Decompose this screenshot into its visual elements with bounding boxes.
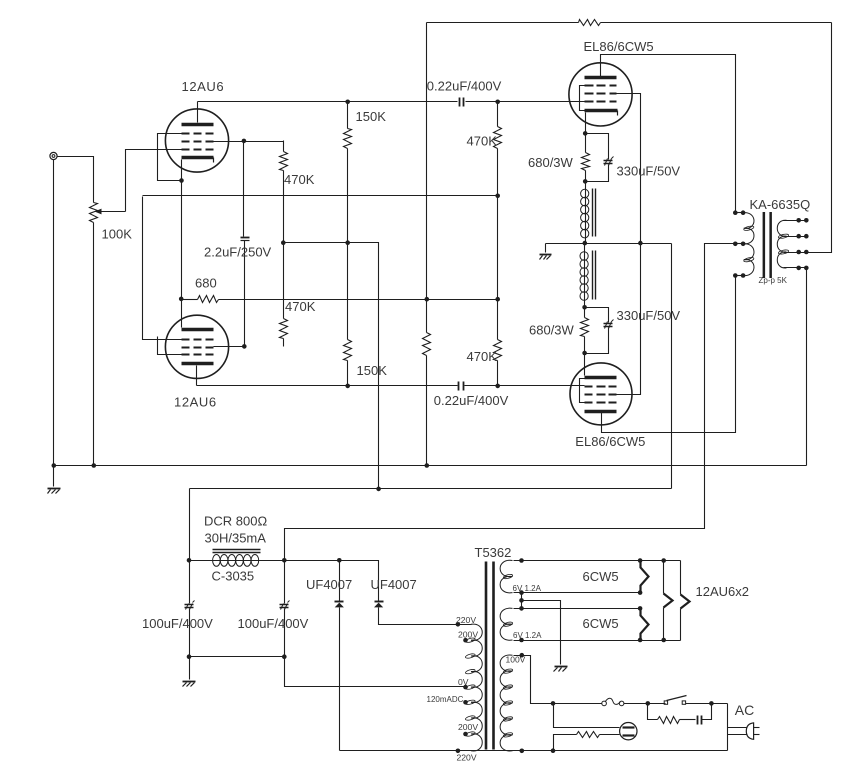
wire 220V top tap	[379, 624, 472, 626]
label DCR 800ohm	[204, 514, 267, 529]
switch SW1	[664, 696, 686, 705]
node 220V top tap	[456, 622, 461, 627]
PT 6.3V winding 2	[500, 608, 513, 640]
OPT primary winding	[743, 213, 754, 276]
V4 cathode lead up	[584, 354, 586, 376]
svg-text:6V 1.2A: 6V 1.2A	[513, 631, 542, 640]
wire B+ rail after choke	[190, 488, 672, 490]
capacitor C5 330uF/50V	[585, 308, 614, 354]
wire 100V winding top feed	[514, 656, 554, 704]
wire lamp top branch	[554, 704, 620, 728]
wire main ground rail	[54, 465, 807, 467]
label 0.22uF/400V bottom	[434, 393, 509, 408]
node diode D1 top	[337, 558, 342, 563]
node OPT primary terminal y275.5	[733, 273, 745, 278]
node winding centre / wire y243	[583, 241, 588, 246]
wire top feedback rail	[427, 20, 832, 26]
node V3 cathode	[583, 131, 588, 136]
node snubber right	[709, 701, 714, 706]
cathode feedback winding lower half	[580, 244, 588, 308]
node 200V tap upper	[463, 638, 468, 643]
wire heater ground tap	[521, 593, 523, 609]
node 12AU6 chain top	[661, 558, 666, 563]
node OPT secondary terminal y252.0	[796, 250, 808, 255]
V4 cathode-g3 bracket	[580, 379, 585, 403]
node C1 top / V1 g2	[242, 139, 247, 144]
label 680/3W R11	[528, 155, 574, 170]
label 30H/35mA	[205, 531, 267, 546]
svg-text:30H/35mA: 30H/35mA	[205, 531, 267, 546]
resistor R7 470K (EL86-1 grid)	[494, 102, 502, 196]
wire 680 rail	[284, 299, 498, 301]
V1 g2 lead to 2.2uF node	[214, 141, 284, 143]
node R8 bottom on lower rail	[495, 384, 500, 389]
node OPT secondary terminal y267.9	[796, 266, 808, 271]
resistor R10 NFB to ground	[423, 300, 431, 466]
node AC hot / lamp branch	[551, 701, 556, 706]
svg-text:200V: 200V	[458, 722, 478, 732]
node pot ground	[92, 463, 97, 468]
label 680/3W R12	[529, 323, 575, 338]
wire OPT sec tap4 to ground rail	[806, 268, 808, 466]
wire jack to pot top	[58, 157, 94, 203]
wire w2 top bus	[514, 608, 641, 610]
svg-text:680/3W: 680/3W	[528, 155, 574, 170]
label 120mADC	[427, 695, 464, 704]
resistor R6 150K lower	[344, 243, 352, 386]
neon lamp NE1	[620, 723, 637, 740]
OPT primary terminal stubs	[736, 213, 744, 276]
PT primary winding	[465, 624, 482, 751]
svg-text:6CW5: 6CW5	[583, 616, 619, 631]
resistor R3 470K (V1 screen)	[280, 141, 288, 243]
svg-text:EL86/6CW5: EL86/6CW5	[575, 434, 645, 449]
svg-text:470K: 470K	[467, 134, 498, 149]
svg-text:330uF/50V: 330uF/50V	[617, 308, 681, 323]
heater 12AU6 chain left	[664, 561, 673, 641]
node C2/R7 plate rail	[495, 100, 500, 105]
snubber capacitor C8	[698, 704, 712, 725]
wire switch to corner	[686, 703, 728, 705]
lamp resistor R14	[554, 732, 620, 751]
label KA-6635Q	[750, 197, 811, 212]
label 200V upper	[458, 630, 478, 640]
wire heater bus bottom	[514, 640, 681, 642]
wire R7 node down to 680 rail	[497, 196, 499, 300]
label 680	[195, 276, 217, 291]
wire V1 plate rail	[198, 101, 458, 103]
label 0V	[458, 677, 469, 687]
label 12AU6 V1	[182, 79, 225, 94]
wire B+ rail upper	[284, 243, 379, 489]
V2 grid bracket	[158, 337, 182, 355]
wire fuse to switch node	[624, 703, 666, 705]
node C7 bottom	[282, 654, 287, 659]
svg-text:2.2uF/250V: 2.2uF/250V	[204, 245, 272, 260]
wire 0V return	[285, 657, 466, 687]
wire w1 bottom	[514, 592, 641, 594]
V4 g2 lead	[616, 244, 641, 395]
label 220V top	[456, 615, 476, 625]
label UF4007 D1	[306, 577, 352, 592]
label 150K R5	[356, 109, 387, 124]
pot wiper arrow	[95, 209, 126, 215]
node V1 cathode-g3	[179, 178, 184, 183]
node 680 rail / R8 top	[495, 297, 500, 302]
node w2 bottom	[519, 638, 524, 643]
resistor R9 NFB vertical	[426, 23, 428, 300]
wire AC bottom rail	[340, 750, 728, 752]
V2 g1 feed wire	[143, 197, 182, 340]
V1 g3-cathode bracket	[158, 134, 182, 181]
choke L1 C-3035	[190, 550, 285, 567]
wire AC right drop	[727, 704, 729, 751]
svg-text:470K: 470K	[284, 172, 315, 187]
label 0.22uF/400V top	[427, 78, 502, 93]
wire cap bottoms	[190, 656, 285, 658]
node OPT primary terminal y212.7	[733, 210, 745, 215]
node V4 cathode node	[582, 351, 587, 356]
node choke left	[187, 558, 192, 563]
PT 100V winding	[500, 655, 513, 751]
wire rectifier bus	[285, 561, 379, 602]
svg-text:200V: 200V	[458, 630, 478, 640]
wire cross-coupling rail y196	[143, 195, 498, 197]
node R3 bottom on B+ rail	[281, 240, 286, 245]
label 6V 1.2A w1	[513, 584, 542, 593]
diode D1 UF4007	[335, 561, 344, 751]
heater 12AU6 chain right	[681, 561, 690, 641]
node 220V bottom tap	[456, 749, 461, 754]
wire KA primary CT to PSU	[285, 244, 736, 561]
svg-text:6CW5: 6CW5	[583, 569, 619, 584]
V2 plate lead up to node	[181, 299, 183, 328]
capacitor C7 100uF/400V	[280, 561, 290, 657]
V1 plate lead	[197, 102, 199, 123]
V3 g2 lead down	[617, 94, 641, 244]
node heater2 top	[638, 606, 643, 611]
wire choke input drop	[189, 489, 191, 561]
node jack ground	[52, 463, 57, 468]
node R6 bottom on lower rail	[345, 384, 350, 389]
svg-text:470K: 470K	[467, 349, 498, 364]
pentode V3 EL86/6CW5	[569, 63, 632, 126]
svg-text:DCR 800Ω: DCR 800Ω	[204, 514, 267, 529]
snubber resistor R13	[648, 704, 696, 724]
svg-text:AC: AC	[735, 702, 754, 718]
node NFB/680 rail	[425, 297, 430, 302]
input jack J1	[50, 152, 57, 159]
svg-text:100K: 100K	[102, 226, 133, 241]
OPT secondary terminal stubs	[784, 221, 807, 268]
ground G2 stub	[540, 244, 552, 260]
PT core bars	[485, 562, 495, 750]
node 100V top terminal	[520, 653, 525, 658]
capacitor C3 0.22uF/400V bottom	[459, 382, 585, 391]
OPT core bars	[763, 212, 772, 278]
node snubber left	[646, 701, 651, 706]
node heater ground tap mid	[519, 598, 524, 603]
node screen bus on y243	[638, 241, 643, 246]
svg-text:UF4007: UF4007	[306, 577, 352, 592]
V4 plate lead	[602, 276, 736, 433]
node C6 bottom	[187, 654, 192, 659]
svg-text:100uF/400V: 100uF/400V	[238, 616, 309, 631]
AC plug prongs	[728, 728, 760, 735]
capacitor C2 0.22uF/400V top	[460, 98, 585, 107]
node 100V bottom terminal	[520, 749, 525, 754]
svg-text:EL86/6CW5: EL86/6CW5	[584, 39, 654, 54]
svg-text:0.22uF/400V: 0.22uF/400V	[434, 393, 509, 408]
label 100uF/400V C7	[238, 616, 309, 631]
node NFB on ground rail	[425, 463, 430, 468]
label EL86/6CW5 V4	[575, 434, 645, 449]
label 6CW5 #1	[583, 569, 619, 584]
ground G4 heater	[554, 667, 568, 672]
label 470K R3	[284, 172, 315, 187]
label 100V	[506, 655, 526, 665]
node B+ rail / riser to amp	[376, 487, 381, 492]
svg-text:UF4007: UF4007	[371, 577, 417, 592]
svg-text:470K: 470K	[285, 299, 316, 314]
triode-pentode V2 12AU6	[165, 315, 228, 378]
fuse F1	[602, 698, 624, 705]
wire wiper to V1 grid	[126, 150, 182, 212]
PT 6.3V winding 1	[500, 560, 513, 593]
wire C6 to ground	[189, 657, 191, 680]
wire heater centre to ground	[522, 601, 561, 665]
svg-text:120mADC: 120mADC	[427, 695, 464, 704]
label 330uF/50V C4	[617, 163, 681, 178]
capacitor C1 2.2uF/250V body	[241, 141, 250, 347]
wire OPT sec tap3 to top rail	[807, 23, 832, 253]
label 6CW5 #2	[583, 616, 619, 631]
label 2.2uF/250V	[204, 245, 272, 260]
svg-text:KA-6635Q: KA-6635Q	[750, 197, 811, 212]
node heater2 bottom	[638, 638, 643, 643]
node RC box 2 top	[582, 305, 587, 310]
node C1 bottom / V2 g2	[242, 344, 247, 349]
svg-text:6V 1.2A: 6V 1.2A	[513, 584, 542, 593]
triode-pentode V1 12AU6	[165, 109, 228, 172]
label 470K R7	[467, 134, 498, 149]
label 12AU6x2	[696, 584, 749, 599]
heater 6CW5 #1	[641, 561, 649, 593]
svg-text:C-3035: C-3035	[212, 569, 255, 584]
label 6V 1.2A w2	[513, 631, 542, 640]
label T5362	[475, 545, 512, 560]
node 120mADC tap	[463, 700, 468, 705]
svg-text:680/3W: 680/3W	[529, 323, 575, 338]
label 12AU6 V2	[174, 395, 217, 410]
wire jack ground drop	[53, 160, 55, 487]
label AC	[735, 702, 754, 718]
V3 plate lead	[601, 55, 736, 213]
node heater1 bottom	[638, 590, 643, 595]
V2 cathode lead	[196, 366, 198, 386]
wire centre tap y243	[546, 243, 672, 245]
node OPT secondary terminal y220.3	[796, 218, 808, 223]
svg-text:T5362: T5362	[475, 545, 512, 560]
V3 cathode lead	[585, 113, 587, 134]
label 470K R4	[285, 299, 316, 314]
label UF4007 D2	[371, 577, 417, 592]
label 100K	[102, 226, 133, 241]
wire screen-bus B+ riser	[671, 244, 673, 489]
label 330uF/50V C5	[617, 308, 681, 323]
node w1 top	[519, 558, 524, 563]
wire V2 cathode rail	[197, 385, 458, 387]
node R5 top on plate rail	[345, 100, 350, 105]
AC plug body	[746, 723, 753, 739]
label C-3035	[212, 569, 255, 584]
V1 cathode lead	[181, 160, 183, 299]
node w2 top	[519, 606, 524, 611]
node R7 bottom	[495, 194, 500, 199]
node RC box 1 bottom	[583, 179, 588, 184]
svg-text:330uF/50V: 330uF/50V	[617, 163, 681, 178]
node heater1 top	[638, 558, 643, 563]
heater 6CW5 #2	[641, 609, 649, 641]
cathode feedback winding upper half	[581, 182, 589, 244]
label EL86/6CW5 V3	[584, 39, 654, 54]
node B+ rail / 150K	[345, 240, 350, 245]
svg-text:0.22uF/400V: 0.22uF/400V	[427, 78, 502, 93]
svg-text:680: 680	[195, 276, 217, 291]
label 470K R8	[467, 349, 498, 364]
label 150K R6	[357, 363, 388, 378]
svg-text:150K: 150K	[356, 109, 387, 124]
svg-text:12AU6: 12AU6	[174, 395, 217, 410]
wire AC main	[554, 703, 602, 705]
V2 g2 lead	[214, 346, 245, 348]
node OPT secondary terminal y236.2	[796, 234, 808, 239]
label 220V bottom	[457, 753, 477, 763]
svg-text:220V: 220V	[456, 615, 476, 625]
node V2 plate / V1 cathode / R 680	[179, 297, 184, 302]
potentiometer VR1 100K	[90, 203, 98, 466]
diode D2 UF4007	[374, 602, 459, 625]
svg-text:0V: 0V	[458, 677, 469, 687]
node 200V tap lower	[463, 732, 468, 737]
resistor R11 680/3W	[582, 134, 590, 182]
capacitor C4 330uF/50V	[586, 134, 614, 182]
node lamp branch bottom	[551, 748, 556, 753]
svg-text:100uF/400V: 100uF/400V	[142, 616, 213, 631]
OPT secondary winding	[777, 220, 789, 268]
resistor R5 150K upper	[344, 102, 352, 243]
node 0V tap	[463, 685, 468, 690]
node choke right	[282, 558, 287, 563]
node w1 bottom	[519, 590, 524, 595]
resistor R12 680/3W	[581, 308, 589, 354]
node 12AU6 chain bottom	[661, 638, 666, 643]
resistor R2 680	[182, 296, 284, 303]
capacitor C6 100uF/400V	[185, 561, 195, 657]
resistor R8 470K (EL86-2 grid)	[494, 300, 502, 386]
wire heater bus top	[514, 560, 681, 562]
ground G1 below jack	[48, 489, 61, 494]
node OPT primary terminal y243.8	[733, 242, 745, 247]
label 200V lower	[458, 722, 478, 732]
pentode V4 EL86/6CW5	[570, 363, 632, 425]
svg-text:12AU6x2: 12AU6x2	[696, 584, 749, 599]
svg-text:12AU6: 12AU6	[182, 79, 225, 94]
label 100uF/400V C6	[142, 616, 213, 631]
ground G3 under C6	[183, 682, 196, 687]
svg-text:220V: 220V	[457, 753, 477, 763]
svg-text:150K: 150K	[357, 363, 388, 378]
V3 g3-cathode bracket	[580, 86, 585, 111]
label Zp-p 5K	[759, 276, 788, 285]
resistor R4 470K (V2 screen)	[280, 243, 288, 347]
cathode winding core lower	[593, 251, 596, 300]
cathode winding core upper	[593, 189, 596, 237]
